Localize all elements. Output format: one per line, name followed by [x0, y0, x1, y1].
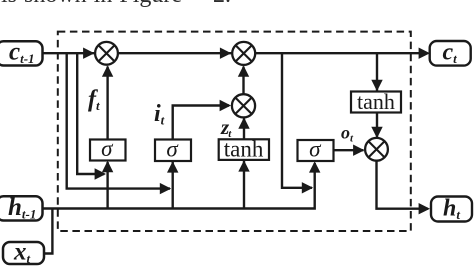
- arrowhead: output sigma into multiply 4: [353, 145, 364, 156]
- multiply node 1 (forget x c): [95, 42, 118, 65]
- wire: stub h-line up into z tanh: [243, 161, 245, 209]
- wire: x(t) joining h-line: [42, 209, 52, 254]
- arrowhead: into h(t) box: [419, 203, 430, 214]
- wire: peephole drop c(t-1) to forget gate (x=77.2 down, right at y=174): [77, 53, 104, 174]
- multiply node 3 (i x z): [232, 94, 255, 117]
- tanh box: block input z: [219, 139, 269, 160]
- X cross in multiply 4: [369, 142, 385, 158]
- sigma box: forget gate: [90, 140, 126, 161]
- wire: c-line from c(t-1) to c(t): [41, 52, 427, 54]
- svg-text:tanh: tanh: [224, 136, 264, 161]
- box c(t-1): [0, 41, 43, 65]
- wire: output tanh down to multiply 4: [376, 113, 378, 139]
- arrowhead: into multiply 2 on c-line: [220, 48, 231, 59]
- wire: stub h-line up into input sigma: [171, 162, 173, 209]
- svg-text:ot: ot: [341, 123, 354, 145]
- arrowhead: c-line down into output tanh: [371, 80, 382, 91]
- sigma box: input gate: [155, 140, 191, 162]
- arrowhead: forget sigma up into multiply 1: [102, 65, 113, 76]
- wire: peephole drop c(t-1) to input gate (x=66.7 down, right at y=188.6): [67, 53, 170, 188]
- arrowhead: peephole into input stub: [160, 183, 171, 194]
- wire: h-line from h(t-1) right, ending up into output gate sigma: [41, 163, 315, 209]
- dashed cell boundary: [58, 32, 411, 231]
- X cross in multiply 3: [236, 98, 252, 114]
- X cross in multiply 2: [236, 46, 252, 62]
- X cross in multiply 1: [99, 46, 115, 62]
- arrowhead: input line into multiply 3: [220, 100, 231, 111]
- arrowhead: peephole into forget stub: [95, 168, 106, 179]
- wire: forget gate output up to multiply 1: [106, 67, 108, 140]
- arrowhead: into c(t) box: [419, 48, 430, 59]
- arrowhead: h-line up into output sigma: [309, 161, 320, 172]
- tanh box: output tanh: [351, 92, 401, 113]
- svg-text:σ: σ: [101, 136, 114, 161]
- box x(t): [3, 242, 44, 264]
- svg-text:ft: ft: [88, 87, 100, 114]
- box c(t): [430, 41, 471, 66]
- svg-text:it: it: [154, 101, 165, 128]
- arrowhead: into multiply 1 on c-line: [83, 48, 94, 59]
- box h(t-1): [0, 196, 43, 220]
- wire: stub h-line up into forget sigma: [106, 162, 108, 209]
- arrowhead: h-line up into input sigma: [167, 161, 178, 172]
- wire: input gate output up and right to multiply 3: [173, 106, 229, 140]
- arrowhead: z line up into multiply 3: [238, 117, 249, 128]
- wire: c-line drop to output tanh: [376, 53, 378, 92]
- wire: multiply 3 up to multiply 2 on c-line: [242, 67, 244, 95]
- svg-text:σ: σ: [309, 136, 322, 161]
- arrowhead: output tanh down into multiply 4: [371, 127, 382, 138]
- arrowhead: h-line up into z tanh: [238, 160, 249, 171]
- arrowhead: h-line up into forget sigma: [102, 161, 113, 172]
- wire: z tanh output up to multiply 3: [243, 119, 245, 140]
- svg-text:tanh: tanh: [357, 89, 395, 114]
- arrowhead: peephole into output stub: [302, 182, 313, 193]
- sigma box: output gate: [298, 140, 334, 161]
- svg-text:σ: σ: [166, 136, 179, 161]
- caption text sliver at top: "... is shown in Figure 2.": [1, 0, 182, 9]
- wire: multiply 4 down and right to h(t): [377, 161, 429, 209]
- wire: output sigma right to multiply 4: [334, 149, 364, 151]
- multiply node 2 (on c-line, add of input): [232, 42, 255, 65]
- multiply node 4 (o x tanh c): [365, 138, 388, 161]
- arrowhead: multiply 3 up into multiply 2: [238, 65, 249, 76]
- box h(t): [431, 197, 472, 222]
- wire: peephole drop c(t) to output gate (x=282 down, right at y=187.8): [282, 53, 312, 188]
